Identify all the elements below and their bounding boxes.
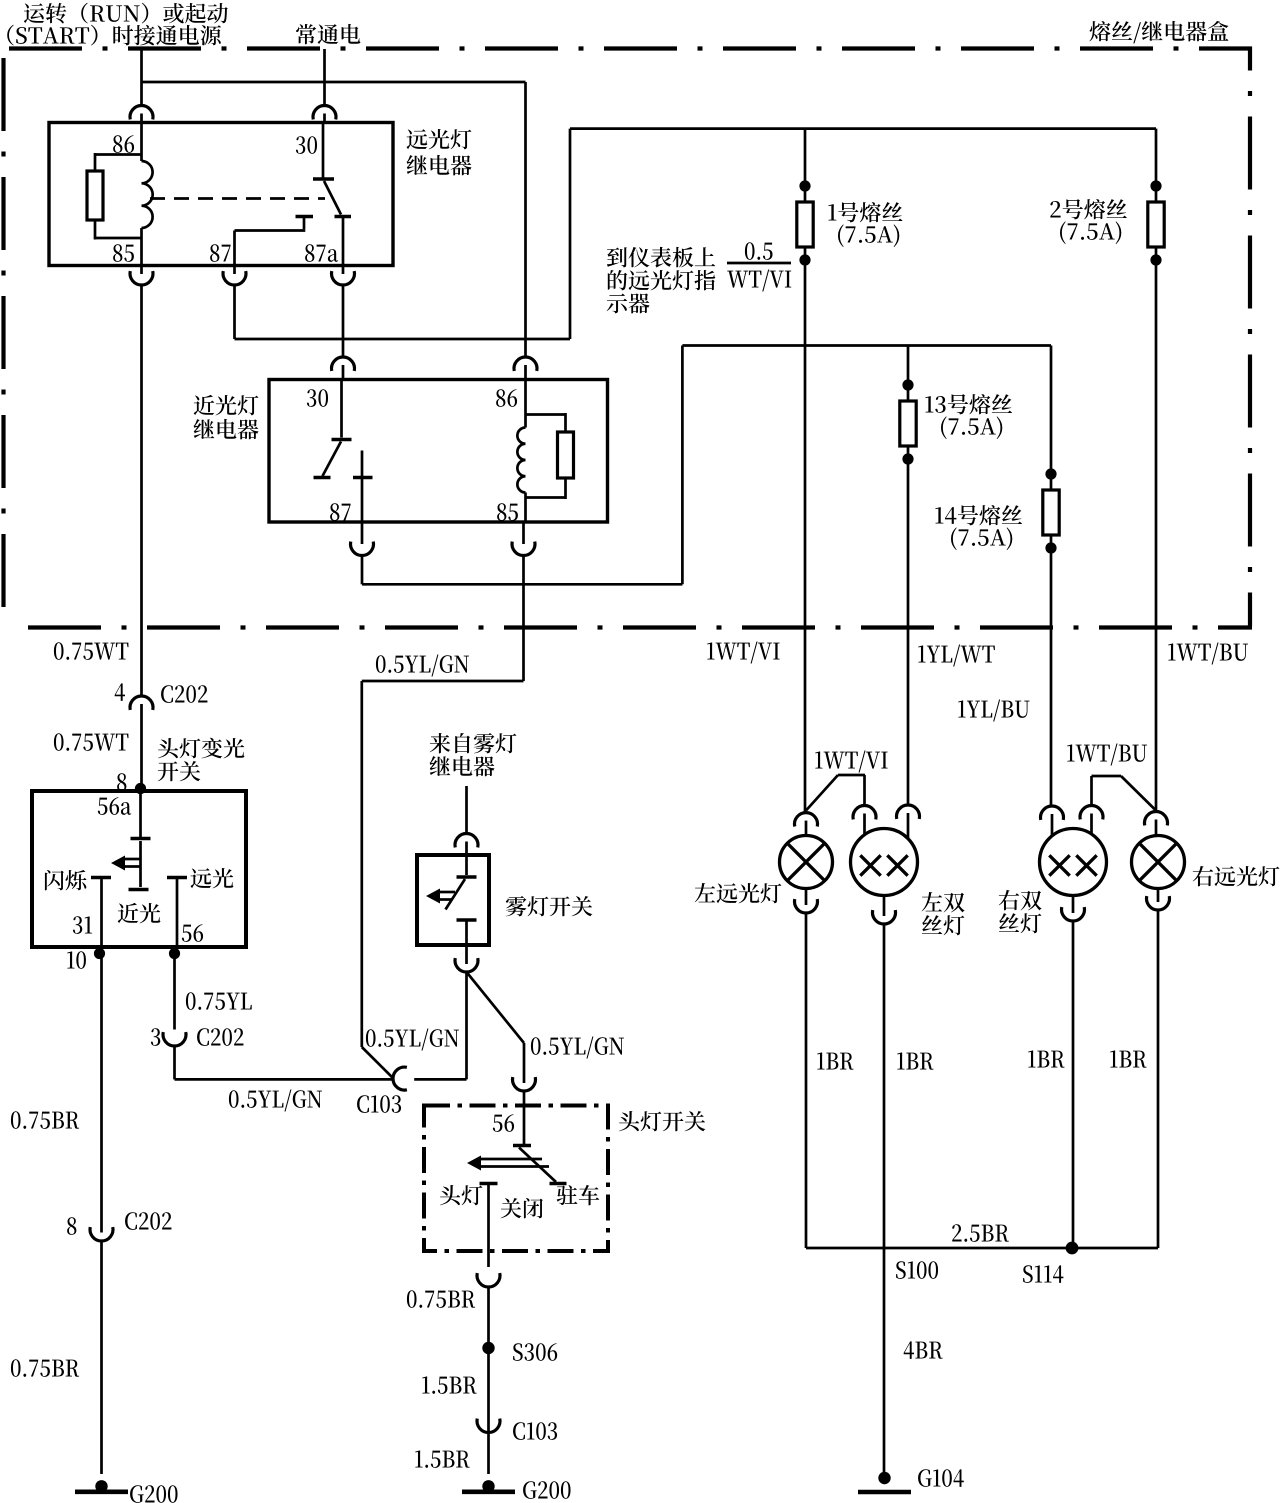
label: 右远光灯 [1193,866,1280,886]
label G200 (left) [130,1485,178,1503]
label: 2号熔丝(7.5A) [1050,199,1127,244]
wire 1BR (right high-beam to bus) [1073,910,1158,1248]
connector below left dual lamp [872,896,895,924]
label: RUN/START power source [7,3,228,46]
lamp: right dual-filament 右双丝灯 [1040,829,1107,896]
label 8 (pin) [117,773,126,791]
wire 0.75BR: dimmer pin 10 to G200 [100,954,103,1233]
label: 近光灯继电器 [194,395,259,439]
headlight switch contact 头灯 [480,1184,498,1268]
dimmer switch pole [131,791,151,839]
label C103 (lower) [513,1422,557,1440]
lamp: left high-beam 左远光灯 [780,836,833,889]
label C103 (mid) [357,1095,401,1113]
connector above right high-beam lamp [1145,812,1168,836]
label 0.75BR (right) [407,1290,475,1308]
pin label 30 (K1) [296,136,317,154]
label S114 [1023,1265,1063,1283]
relay K1 coil [142,123,153,266]
wire: RUN feed branch (horizontal) [142,81,526,84]
connector above fog switch [455,834,478,855]
wire 0.75YL: dimmer pin 56 down [173,954,176,1030]
label 10 (pin) [67,951,86,969]
label: 左远光灯 [695,883,782,903]
label 0.5YL/GN (below border) [376,655,469,677]
relay K1 switch contact 30 [313,123,334,180]
label 56 (headlight switch) [493,1114,514,1132]
label 2.5BR [952,1224,1009,1242]
connector C103 (lower) [477,1419,500,1433]
label 0.5YL/GN (left diag) [366,1029,459,1051]
wire 0.5YL/GN: K2-85 down [362,556,524,1048]
label 1WT/BU (right) [1168,643,1248,665]
wire 1BR (left high-beam to bus) [806,913,885,1248]
label: to instrument panel high-beam indicator [607,247,716,314]
label: 闪烁 [45,870,87,891]
connector at K2 pin 85 [512,522,535,555]
label 0.5YL/GN (horizontal run) [229,1090,322,1112]
splice S114 [1066,1242,1079,1255]
wire: K1-87 to fuse feed [235,129,1157,339]
label 1BR d [1110,1050,1146,1067]
wire: RUN feed to relay coil [140,49,143,105]
label 1YL/BU [958,700,1029,722]
label: 13号熔丝(7.5A) [925,394,1012,439]
fuse F1 1号熔丝 7.5A [797,129,813,266]
connector 3 C202 [163,1032,186,1079]
relay K2 parallel resistor [526,413,574,499]
relay K2 contact 87 [353,451,373,523]
connector at K1 pin 85 [130,266,153,285]
fog switch input contact [457,855,477,877]
label: 关闭 [501,1198,543,1218]
relay K1 parallel resistor [87,153,142,240]
label 0.75YL [186,992,252,1010]
wire 4BR to ground G104 [883,1248,886,1473]
label G200 (right) [523,1481,571,1499]
label C202 (mid) [197,1028,243,1046]
wire: RUN feed down to relay K2 coil [524,82,527,357]
wire 0.75WT: K1-85 down to C202 [140,285,143,695]
label: 近光 [118,903,161,923]
label 1.5BR (upper) [422,1376,476,1393]
pin label 87 (K2) [330,503,350,521]
label 1YL/WT [918,645,995,667]
wire 0.5YL/GN: fog switch to headlight switch 56 [467,972,525,1083]
wire: C103 to fog switch output [414,972,466,1079]
headlight switch actuation arrow [467,1156,549,1171]
label 3 (pin) [151,1028,160,1046]
label 0.75WT (upper) [54,642,129,660]
label: 左双丝灯 [922,892,965,935]
connector at relay K2 pin 86 [514,357,537,379]
label: 头灯开关 [619,1111,705,1131]
connector above left high-beam lamp [794,813,817,836]
pin label 85 (K1) [113,244,134,262]
label 1BR c [1028,1050,1064,1067]
relay K2 box 近光灯继电器 [269,380,608,523]
label S306 [513,1343,557,1361]
relay K1 coil-armature dashed link [150,197,325,200]
label 0.5YL/GN (right diag) [531,1037,624,1059]
label 0.75BR (upper left) [11,1111,79,1129]
wire 1WT/BU: fuse F2 down to right high-beam lamp [1155,260,1158,812]
ground G200 (left) [75,1480,128,1492]
fog switch output contact [457,920,477,945]
label S100 [896,1261,938,1279]
wire: from fog relay [465,786,468,833]
label 1.5BR (lower) [415,1450,469,1467]
label 56 (pin, dimmer) [182,924,203,942]
label: constant power 常通电 [296,24,360,44]
wire 1WT/VI: fuse F1 down to left high-beam lamp [804,260,807,813]
wire 1YL/WT: fuse F13 down to left dual lamp [907,459,910,805]
fog switch lever [446,879,466,910]
headlight switch box (dash-dot) [424,1106,608,1252]
connector left dual lamp (high-beam filament) [853,806,876,835]
relay K1 switch lever [324,181,341,215]
connector above headlight switch [513,1077,536,1105]
connector at relay K1 pin 30 [313,106,336,123]
wire 1BR (right dual lamp down) [1072,921,1075,1248]
wire: branch from right high-beam to dual lamp [1092,776,1157,811]
wire: K1-87a down to K2 pin 30 [342,285,345,357]
label: 远光 [191,868,234,888]
dimmer switch lever [129,841,149,890]
terminal dot pin 10 [94,948,105,959]
fuse F13 13号熔丝 7.5A [900,346,916,465]
connector below headlight switch [477,1273,500,1474]
connector right dual lamp (high-beam filament) [1080,806,1103,835]
connector left dual lamp (low-beam filament) [897,805,920,839]
label: 雾灯开关 [506,896,593,916]
connector at K2 pin 87 [351,522,374,555]
label: fuse/relay box 熔丝/继电器盒 [1090,21,1229,43]
dimmer switch actuation arrow [111,856,140,871]
connector below left high-beam lamp [794,889,817,913]
label 56a [98,797,131,815]
dimmer switch box [32,791,246,947]
connector 8 C202 (left wire) [90,1227,113,1474]
connector 4 C202 [130,696,153,788]
relay K2 coil [517,380,525,523]
label 8 (pin C202) [67,1217,76,1235]
relay K2 lever end contact [314,476,331,479]
wire: relay feed joins C103 [362,1047,394,1079]
connector at K1 pin 87a [332,266,355,285]
label 0.75BR (lower left) [11,1359,79,1377]
dimmer contact 闪烁/31 [91,878,111,948]
fuse/relay box border (dash-dot) [4,49,1253,628]
wire 1YL/BU: fuse F14 down to right dual lamp [1050,548,1053,806]
relay K1 contact 87a [335,217,352,266]
fog switch box [417,855,489,945]
pin label 85 (K2) [497,503,518,521]
headlight switch pole 56 [513,1106,531,1146]
fuse F2 2号熔丝 7.5A [1148,129,1164,266]
label 4BR [904,1341,943,1359]
label G104 [918,1469,964,1487]
label 1WT/VI (branch) [815,751,887,773]
label: 来自雾灯继电器 [430,733,517,776]
junction dot pin 8 on dimmer switch [135,783,146,794]
label 1BR a [817,1052,853,1069]
dimmer contact 远光/56 [167,878,187,948]
label 0.75WT (lower) [54,733,129,751]
connector C103 (inline) [393,1067,407,1090]
label 4 (pin) [115,683,125,701]
wire 1BR (left dual lamp down) [883,924,886,1248]
pin label 87 (K1) [210,244,230,262]
label: 驻车 [557,1185,600,1205]
headlight switch contact 驻车 [550,1182,567,1185]
label C202 (upper) [161,685,207,703]
relay K2 switch contact 30 [332,380,352,440]
pin label 30 (K2) [307,389,328,407]
label 1BR b [897,1052,933,1069]
connector at K1 pin 87 [223,266,246,285]
ground G200 (right) [462,1480,515,1492]
pin label 86 (K2) [496,389,517,407]
pin label 87a (K1) [305,244,338,262]
relay K1 box 远光灯继电器 [49,123,393,266]
wire: branch from left high-beam to dual lamp [806,775,865,811]
label: 头灯 [440,1185,482,1205]
fog switch actuation arrow [426,889,455,904]
connector at relay K1 pin 86 [130,106,153,123]
wire 0.5YL/GN to C103 [175,1078,394,1081]
relay K2 switch lever [323,442,342,477]
connector right dual lamp (low-beam filament) [1041,806,1064,836]
wire: K2-87 to fuse 13/14 feed [362,346,1051,585]
label: 头灯变光开关 [158,738,245,782]
wire: constant power to relay K1 pin 30 [323,49,326,105]
lamp: left dual-filament 左双丝灯 [851,829,918,896]
connector at relay K2 pin 30 [332,357,355,379]
pin label 86 (K1) [113,135,134,153]
wire 2.5BR ground bus [885,1247,1073,1250]
headlight switch lever [519,1148,556,1183]
label: 1号熔丝(7.5A) [828,202,902,247]
relay K1 contact 87 [235,217,314,266]
connector below right dual lamp [1061,896,1084,921]
splice S306 [482,1342,494,1354]
fuse F14 14号熔丝 7.5A [1043,346,1059,554]
ground G104 [858,1472,911,1492]
terminal dot pin 56 [169,948,180,959]
label: 远光灯继电器 [407,129,472,175]
lamp: right high-beam 右远光灯 [1132,836,1185,889]
label 31 (pin) [73,916,92,934]
connector below fog switch [455,945,478,972]
label 1WT/BU (branch) [1067,744,1147,766]
label: 0.5 WT/VI fraction [727,242,791,291]
label 1WT/VI [707,642,779,664]
label: 右双丝灯 [999,890,1042,933]
connector below right high-beam lamp [1147,889,1170,910]
label: 14号熔丝(7.5A) [935,505,1022,550]
label C202 (left) [125,1212,171,1230]
